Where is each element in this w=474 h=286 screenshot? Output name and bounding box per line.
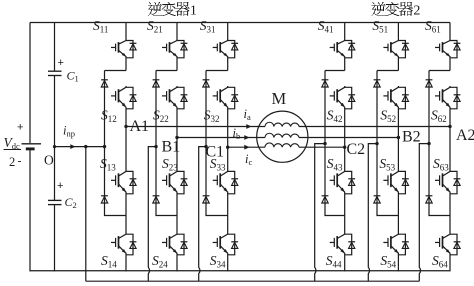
wire leg 4 S41 emitter to upper junction [344,58,346,71]
transistor S31 [213,40,238,59]
wire leg 4 S44 emitter to - bus [344,255,346,271]
transistor S33 [213,170,238,194]
diode D31 upper clamp [203,80,210,87]
wire motor to C2 [299,146,345,148]
label Vdc/2 source [4,122,24,170]
svg-text:B2: B2 [402,129,421,146]
svg-text:A1: A1 [130,118,150,135]
wire leg 1 clamp rail [105,71,127,216]
wire leg 3 collector from + bus [227,23,229,40]
transistor S61 [435,40,460,59]
wire leg 4 upper junction to clamp rail [325,70,345,72]
svg-text:-: - [18,154,22,168]
wire neutral distribution bus [86,280,420,282]
wire top DC+ bus [30,22,450,24]
wire leg 1 S11 emitter to upper junction [125,58,127,71]
transistor S51 [383,40,408,59]
wire motor to B2 [299,137,398,139]
wire leg 3 neutral riser with hop over - bus [199,147,206,282]
transistor S62 [435,86,460,109]
diode D12 lower clamp [101,196,108,203]
transistor S42 [330,86,355,109]
svg-text:2: 2 [413,4,420,19]
wire neutral drop from O [85,147,87,282]
wire leg 5 clamp rail [377,71,398,216]
wire leg 2 S23 emitter to S24 [176,194,178,233]
wire leg 1 S12 emitter to phase node [125,109,127,127]
wire leg 6 collector from + bus [449,23,451,40]
wire leg 2 neutral riser with hop over - bus [148,147,156,282]
label C1 with polarity [58,57,79,84]
wire left rail lower (battery -) [29,150,31,272]
svg-text:+: + [17,122,23,134]
label C2 with polarity [57,180,77,210]
transistor S14 [111,233,136,255]
wire leg 5 upper junction to clamp rail [377,70,398,72]
wire bottom DC- bus [30,270,450,272]
transistor S63 [435,170,460,194]
wire motor to A2 [299,126,450,128]
node O rail with i_np arrow [53,144,106,149]
wire leg 5 neutral riser with hop over - bus [368,144,377,282]
wire leg 3 S32 emitter to phase node [227,109,229,147]
svg-text:A2: A2 [456,127,474,144]
node phase C1 [226,146,229,149]
wire leg 6 S63 emitter to S64 [449,194,451,233]
transistor S52 [383,86,408,109]
wire leg 5 S51 emitter to upper junction [397,58,399,71]
svg-text:B1: B1 [162,139,181,156]
wire leg 3 S33 emitter to S34 [227,194,229,233]
wire leg 3 phase node to S33 [227,147,229,170]
node leg 3 clamp-neutral junction [204,145,207,148]
transistor S11 [111,40,136,59]
transistor S23 [162,170,187,194]
wire leg 2 phase node to S23 [176,138,178,171]
node leg 6 clamp-neutral junction [427,142,430,145]
wire leg 4 neutral riser with hop over - bus [315,144,325,282]
motor winding phase c [265,143,299,147]
wire leg 2 S21 emitter to upper junction [176,58,178,71]
wire leg 1 S14 emitter to - bus [125,255,127,271]
wire leg 3 S34 emitter to - bus [227,255,229,271]
diode D11 upper clamp [101,80,108,87]
wire leg 4 phase node to S43 [344,147,346,170]
wire leg 2 clamp rail [156,71,177,216]
wire leg 6 upper junction to clamp rail [429,70,450,72]
wire leg 6 S62 emitter to phase node [449,109,451,127]
diode D51 upper clamp [374,80,381,87]
wire leg 1 collector from + bus [125,23,127,40]
transistor S54 [383,233,408,255]
wire leg 5 S53 emitter to S54 [397,194,399,233]
diode D62 lower clamp [426,196,433,203]
transistor S64 [435,233,460,255]
svg-text:+: + [57,180,63,192]
wire leg 6 neutral riser with hop over - bus [419,144,429,282]
diode D41 upper clamp [322,80,329,87]
node phase C2 [343,146,346,149]
battery Vdc/2 [22,144,42,149]
node phase B1 [175,136,178,139]
transistor S12 [111,86,136,109]
diode D22 lower clamp [153,196,160,203]
wire leg 2 S24 emitter to - bus [176,255,178,271]
transistor S44 [330,233,355,255]
capacitor C2 [48,200,62,204]
svg-text:1: 1 [190,4,197,19]
motor M stator circle [257,111,308,162]
wire phase b line B1 to motor with i_b arrow [177,135,265,140]
node phase A1 [124,125,127,128]
svg-text:O: O [44,153,54,168]
wire leg 3 upper junction to clamp rail [206,70,228,72]
wire capacitor rail top [54,23,56,72]
wire leg 4 clamp rail [325,71,345,216]
transistor S21 [162,40,187,59]
wire leg 3 S31 emitter to upper junction [227,58,229,71]
wire leg 1 phase node to S13 [125,127,127,171]
transistor S22 [162,86,187,109]
wire leg 5 S52 emitter to phase node [397,109,399,138]
diode D42 lower clamp [322,196,329,203]
wire leg 2 collector from + bus [176,23,178,40]
wire leg 5 phase node to S53 [397,138,399,171]
transistor S41 [330,40,355,59]
svg-text:C1: C1 [206,144,225,161]
label inverter 1 title [148,2,197,19]
svg-text:M: M [272,89,287,108]
wire leg 4 collector from + bus [344,23,346,40]
wire leg 5 collector from + bus [397,23,399,40]
label inverter 2 title [372,2,421,19]
diode D32 lower clamp [203,196,210,203]
svg-text:2: 2 [9,155,15,169]
diode D52 lower clamp [374,196,381,203]
wire leg 2 upper junction to clamp rail [156,70,177,72]
capacitor C1 [48,71,62,75]
wire leg 4 S43 emitter to S44 [344,194,346,233]
transistor S24 [162,233,187,255]
transistor S53 [383,170,408,194]
wire leg 2 S22 emitter to phase node [176,109,178,138]
diode D21 upper clamp [153,80,160,87]
wire left rail upper (battery +) [29,23,31,144]
wire capacitor rail bottom [54,205,56,272]
transistor S43 [330,170,355,194]
wire leg 3 clamp rail [206,71,228,216]
wire leg 4 S42 emitter to phase node [344,109,346,147]
node leg 2 clamp-neutral junction [154,145,157,148]
transistor S34 [213,233,238,255]
diode D61 upper clamp [426,80,433,87]
wire leg 1 upper junction to clamp rail [105,70,127,72]
motor winding phase b [265,133,299,137]
wire leg 6 phase node to S63 [449,127,451,171]
node phase B2 [397,136,400,139]
svg-text:C2: C2 [347,141,366,158]
wire phase c line C1 to motor with i_c arrow [228,145,265,150]
node leg 4 clamp-neutral junction [323,142,326,145]
wire leg 6 clamp rail [429,71,450,216]
motor winding phase a [265,122,299,126]
wire leg 1 S13 emitter to S14 [125,194,127,233]
wire leg 6 S64 emitter to - bus [449,255,451,271]
transistor S13 [111,170,136,194]
transistor S32 [213,86,238,109]
wire phase a line A1 to motor with i_a arrow [126,124,265,129]
wire capacitor rail middle [54,76,56,201]
node leg 5 clamp-neutral junction [375,142,378,145]
svg-text:+: + [58,57,64,69]
node phase A2 [448,125,451,128]
wire leg 6 S61 emitter to upper junction [449,58,451,71]
wire leg 5 S54 emitter to - bus [397,255,399,271]
